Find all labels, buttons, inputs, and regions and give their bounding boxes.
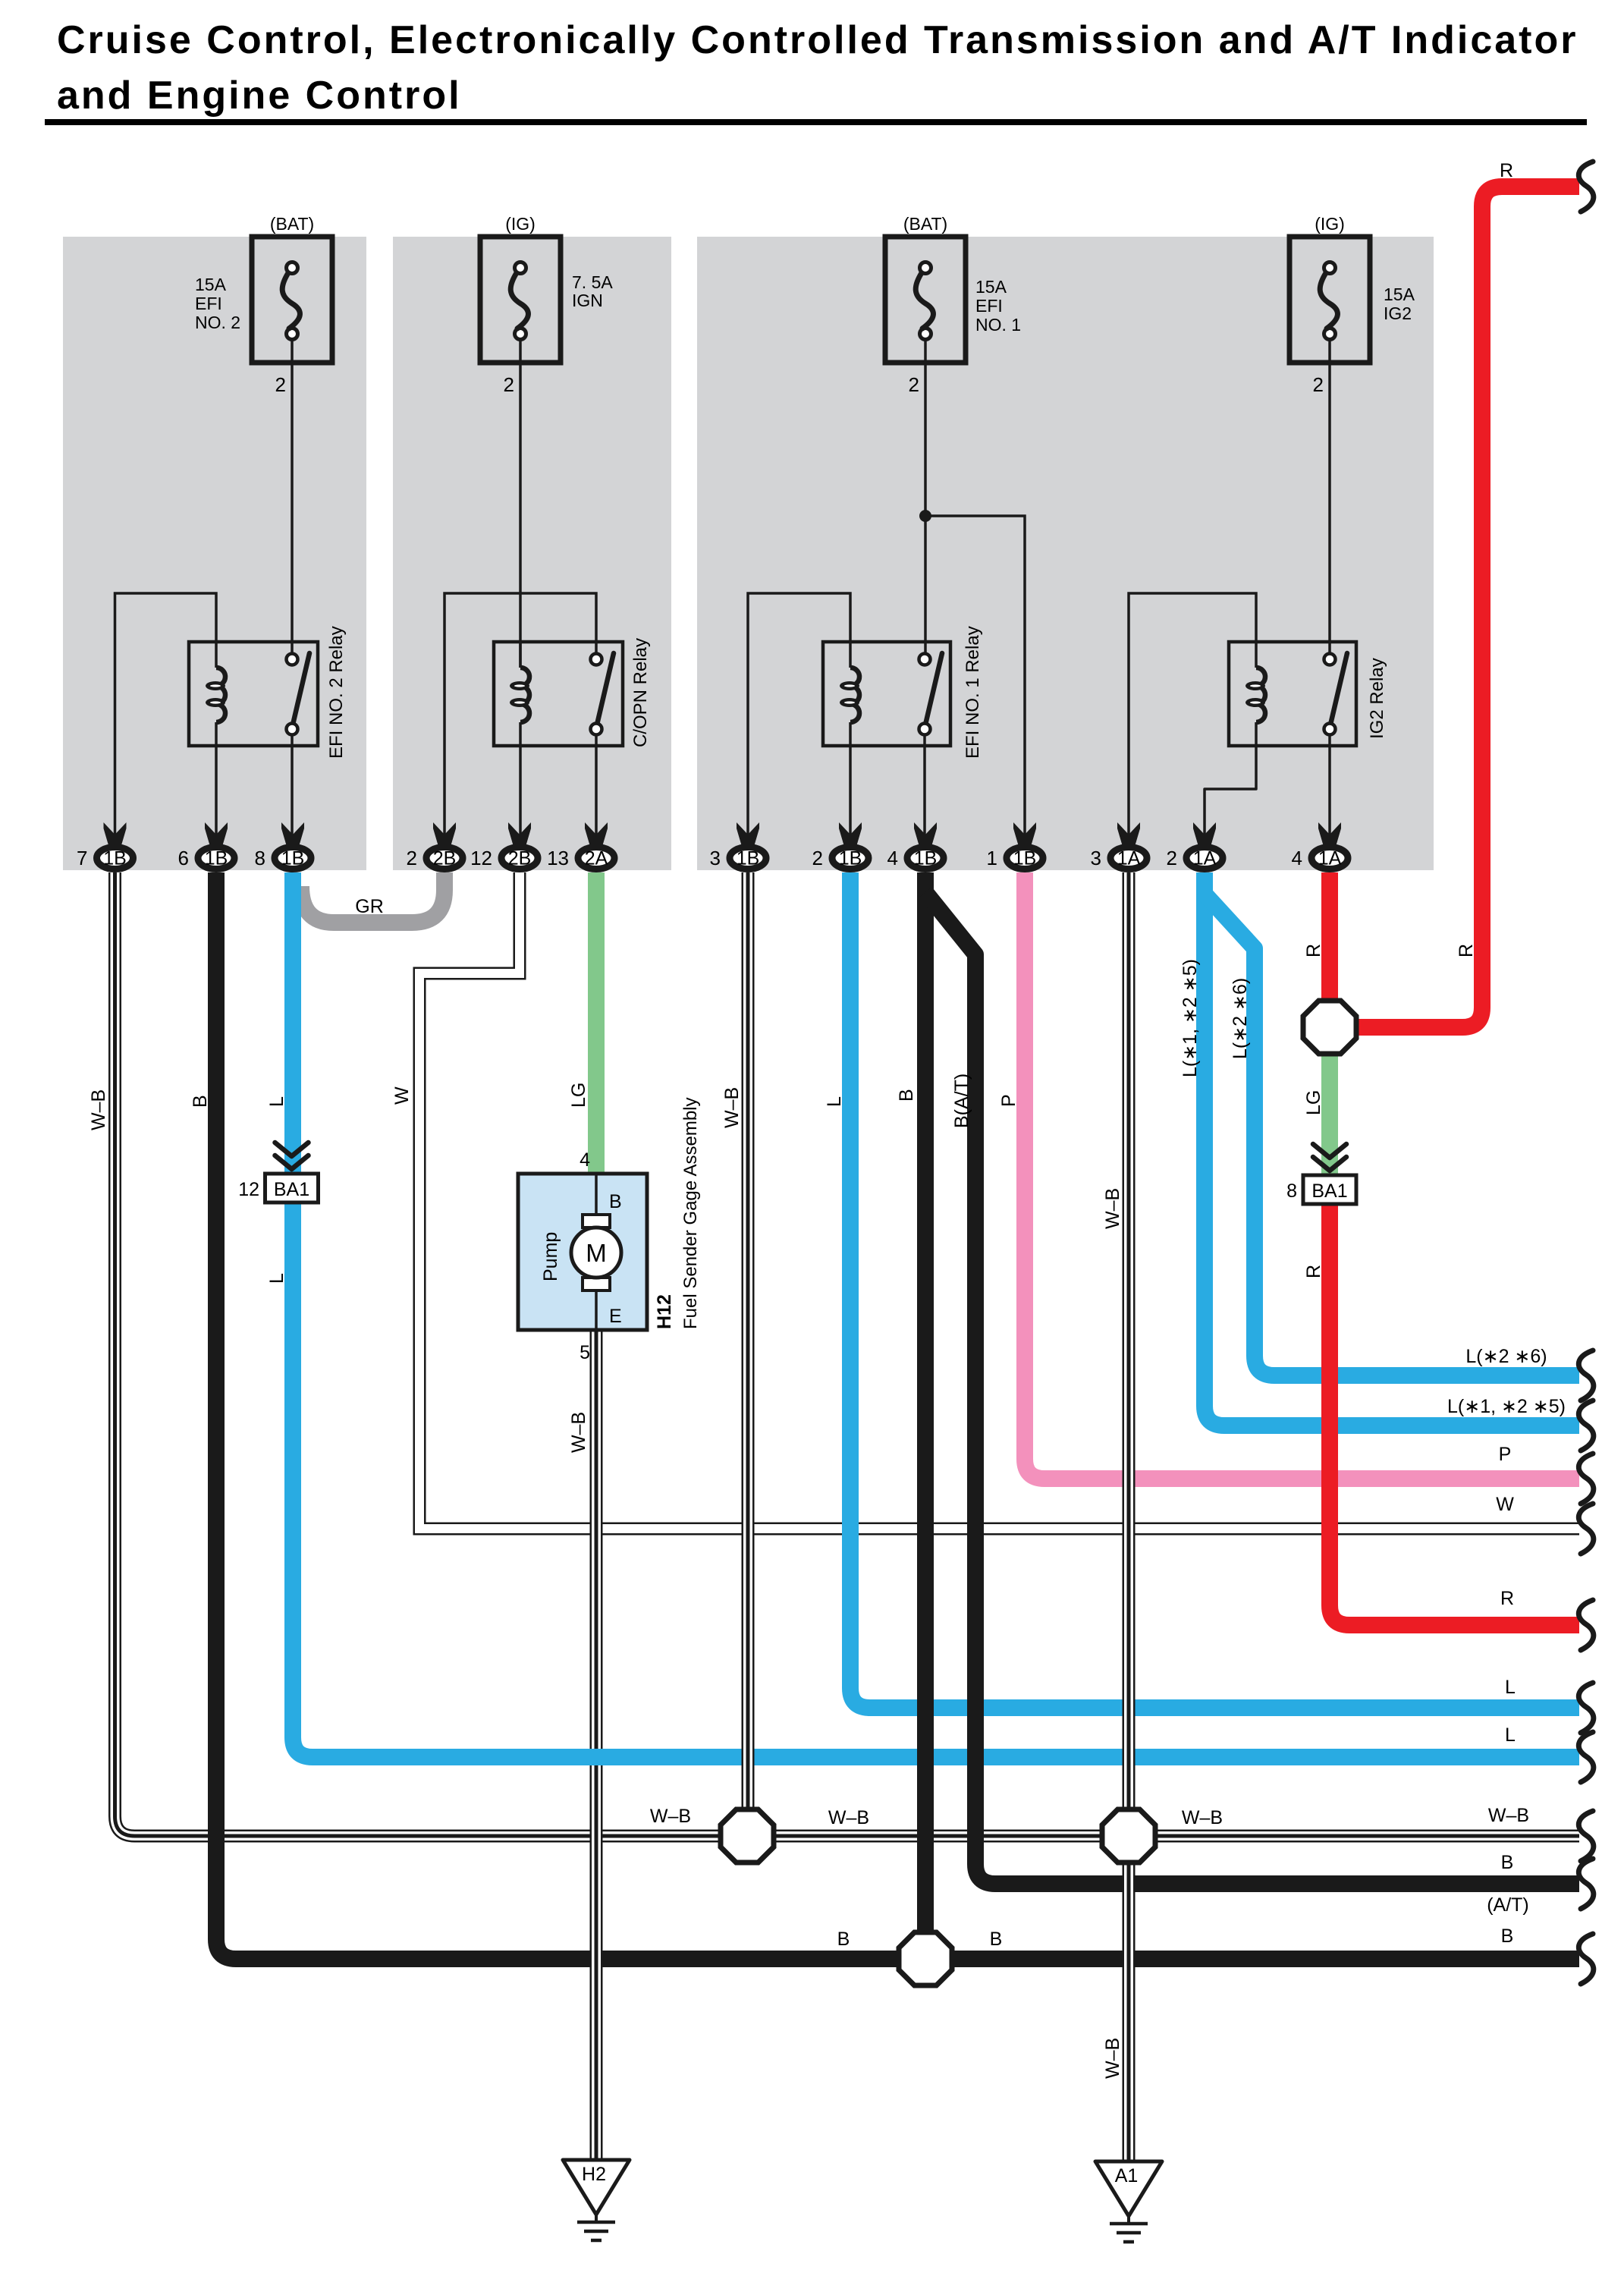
svg-text:W: W xyxy=(391,1086,413,1105)
svg-text:C/OPN Relay: C/OPN Relay xyxy=(630,638,651,747)
svg-text:2B: 2B xyxy=(433,848,457,869)
svg-text:8: 8 xyxy=(1286,1180,1297,1202)
svg-text:2B: 2B xyxy=(508,848,532,869)
svg-text:IG2 Relay: IG2 Relay xyxy=(1367,658,1387,739)
svg-text:15A: 15A xyxy=(975,277,1007,297)
svg-text:B: B xyxy=(837,1929,850,1950)
svg-text:W–B: W–B xyxy=(650,1806,691,1827)
svg-text:L: L xyxy=(266,1273,287,1284)
svg-text:2: 2 xyxy=(812,847,823,869)
svg-text:B: B xyxy=(1501,1852,1514,1873)
svg-text:R: R xyxy=(1456,944,1477,957)
svg-text:1A: 1A xyxy=(1193,848,1217,869)
svg-text:BA1: BA1 xyxy=(274,1179,309,1200)
svg-text:NO. 2: NO. 2 xyxy=(195,313,240,332)
svg-text:W–B: W–B xyxy=(721,1087,743,1128)
svg-text:1A: 1A xyxy=(1117,848,1141,869)
svg-text:GR: GR xyxy=(355,896,384,917)
svg-text:2A: 2A xyxy=(585,848,608,869)
svg-text:B: B xyxy=(896,1089,917,1102)
svg-text:W–B: W–B xyxy=(828,1807,869,1828)
svg-text:5: 5 xyxy=(580,1342,590,1363)
svg-text:12: 12 xyxy=(238,1179,259,1200)
svg-text:Pump: Pump xyxy=(540,1232,561,1281)
svg-text:2: 2 xyxy=(275,373,286,396)
svg-text:B: B xyxy=(190,1095,211,1108)
svg-text:LG: LG xyxy=(1303,1090,1324,1115)
svg-text:2: 2 xyxy=(407,847,417,869)
svg-text:L: L xyxy=(824,1096,845,1107)
svg-text:L(∗2 ∗6): L(∗2 ∗6) xyxy=(1465,1346,1547,1367)
svg-text:Cruise Control, Electronically: Cruise Control, Electronically Controlle… xyxy=(57,18,1578,62)
svg-text:EFI: EFI xyxy=(975,296,1003,316)
svg-text:4: 4 xyxy=(887,847,898,869)
svg-text:W–B: W–B xyxy=(88,1089,109,1130)
svg-text:H2: H2 xyxy=(582,2164,606,2185)
svg-text:(A/T): (A/T) xyxy=(1487,1894,1529,1916)
svg-text:P: P xyxy=(998,1094,1019,1107)
svg-text:EFI NO. 2 Relay: EFI NO. 2 Relay xyxy=(326,626,347,759)
svg-text:(IG): (IG) xyxy=(1315,214,1345,234)
svg-text:2: 2 xyxy=(909,373,919,396)
svg-text:4: 4 xyxy=(1292,847,1302,869)
svg-text:W–B: W–B xyxy=(1182,1807,1223,1828)
svg-text:B: B xyxy=(990,1929,1003,1950)
svg-text:3: 3 xyxy=(1091,847,1101,869)
svg-text:1A: 1A xyxy=(1318,848,1342,869)
svg-text:R: R xyxy=(1500,1588,1514,1609)
svg-text:15A: 15A xyxy=(195,275,227,294)
svg-text:3: 3 xyxy=(710,847,721,869)
svg-text:4: 4 xyxy=(580,1149,590,1171)
svg-text:Fuel Sender Gage Assembly: Fuel Sender Gage Assembly xyxy=(680,1098,701,1330)
svg-text:7. 5A: 7. 5A xyxy=(572,272,613,292)
svg-text:BA1: BA1 xyxy=(1311,1180,1347,1202)
svg-text:W–B: W–B xyxy=(1488,1805,1529,1826)
svg-text:W–B: W–B xyxy=(1102,2038,1123,2079)
svg-text:NO. 1: NO. 1 xyxy=(975,315,1021,335)
svg-text:L: L xyxy=(1505,1677,1516,1698)
svg-text:E: E xyxy=(609,1306,622,1327)
svg-text:1B: 1B xyxy=(103,848,127,869)
svg-text:L: L xyxy=(266,1096,287,1107)
svg-text:13: 13 xyxy=(547,847,569,869)
svg-text:M: M xyxy=(586,1239,607,1267)
svg-text:(BAT): (BAT) xyxy=(903,214,947,234)
svg-text:(IG): (IG) xyxy=(505,214,536,234)
svg-text:R: R xyxy=(1303,944,1324,957)
svg-text:R: R xyxy=(1303,1265,1324,1278)
svg-text:2: 2 xyxy=(1313,373,1324,396)
svg-text:A1: A1 xyxy=(1115,2165,1139,2186)
svg-text:B: B xyxy=(609,1191,622,1212)
svg-text:and Engine Control: and Engine Control xyxy=(57,74,462,118)
svg-text:L: L xyxy=(1505,1724,1516,1746)
svg-text:1B: 1B xyxy=(1013,848,1037,869)
svg-text:B: B xyxy=(1501,1925,1514,1947)
svg-text:1B: 1B xyxy=(839,848,862,869)
svg-text:IGN: IGN xyxy=(572,291,603,310)
svg-text:W–B: W–B xyxy=(1102,1188,1123,1229)
svg-text:P: P xyxy=(1499,1444,1512,1465)
svg-text:7: 7 xyxy=(77,847,87,869)
svg-text:15A: 15A xyxy=(1384,284,1415,304)
svg-text:(BAT): (BAT) xyxy=(270,214,314,234)
svg-text:B(A/T): B(A/T) xyxy=(951,1074,972,1128)
svg-text:2: 2 xyxy=(1167,847,1177,869)
svg-text:EFI NO. 1 Relay: EFI NO. 1 Relay xyxy=(963,626,983,759)
svg-text:L(∗1, ∗2 ∗5): L(∗1, ∗2 ∗5) xyxy=(1447,1396,1566,1417)
svg-text:1B: 1B xyxy=(737,848,760,869)
svg-text:8: 8 xyxy=(255,847,265,869)
svg-text:1: 1 xyxy=(987,847,997,869)
svg-text:H12: H12 xyxy=(654,1294,675,1329)
svg-text:L(∗1, ∗2 ∗5): L(∗1, ∗2 ∗5) xyxy=(1180,959,1201,1077)
svg-text:1B: 1B xyxy=(281,848,305,869)
svg-text:EFI: EFI xyxy=(195,294,222,313)
svg-text:L(∗2 ∗6): L(∗2 ∗6) xyxy=(1230,978,1251,1059)
svg-text:LG: LG xyxy=(568,1083,589,1108)
svg-text:1B: 1B xyxy=(914,848,938,869)
svg-text:IG2: IG2 xyxy=(1384,303,1412,323)
svg-text:2: 2 xyxy=(504,373,514,396)
svg-text:1B: 1B xyxy=(205,848,228,869)
svg-text:12: 12 xyxy=(470,847,492,869)
svg-text:W: W xyxy=(1496,1494,1514,1515)
svg-text:6: 6 xyxy=(178,847,189,869)
svg-text:R: R xyxy=(1500,160,1513,181)
svg-text:W–B: W–B xyxy=(568,1412,589,1453)
